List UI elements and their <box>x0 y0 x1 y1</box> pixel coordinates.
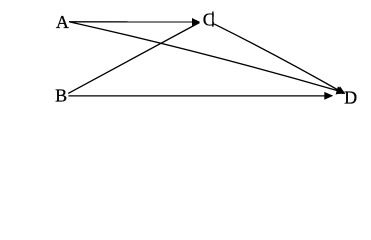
arrowhead A to D <box>336 86 345 94</box>
wire B to C <box>68 23 199 94</box>
wire C to D <box>214 24 339 91</box>
svg-text:D: D <box>344 88 357 108</box>
arrowhead at D horizontal <box>324 92 333 100</box>
wire A to D <box>69 22 338 91</box>
svg-text:A: A <box>56 12 69 32</box>
text cursor after C <box>212 12 213 27</box>
wire A to C <box>69 21 194 23</box>
arrowhead at C <box>192 18 200 26</box>
wire B to D <box>69 95 327 97</box>
svg-text:B: B <box>55 86 67 106</box>
arrowhead C to D <box>336 86 346 94</box>
